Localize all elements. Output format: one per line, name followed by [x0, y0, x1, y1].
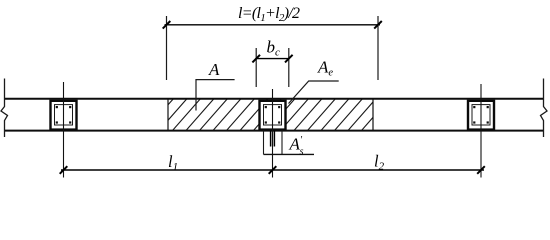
- svg-text:A: A: [208, 60, 220, 79]
- svg-text:l=(l1+l2)/2: l=(l1+l2)/2: [238, 5, 300, 24]
